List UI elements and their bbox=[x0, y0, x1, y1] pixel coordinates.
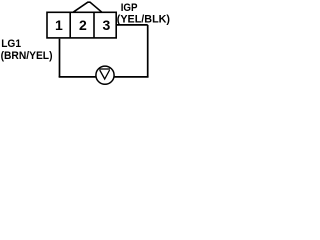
connector pin divider 2/3 bbox=[93, 12, 95, 38]
svg-text:1: 1 bbox=[55, 17, 63, 33]
wire IGP: right vertical bbox=[147, 25, 149, 77]
wire LG1: bottom rail left segment bbox=[59, 76, 96, 78]
svg-text:LG1: LG1 bbox=[1, 38, 21, 50]
svg-text:2: 2 bbox=[79, 17, 87, 33]
wire IGP: bottom rail right segment bbox=[115, 76, 149, 78]
connector pin divider 1/2 bbox=[69, 12, 71, 38]
pulse generator symbol (V with bar) bbox=[99, 69, 110, 79]
svg-text:(BRN/YEL): (BRN/YEL) bbox=[1, 50, 53, 62]
pulse generator G1 (circle) bbox=[96, 66, 114, 84]
wire LG1: pin1 down bbox=[59, 39, 61, 77]
connector keying tab (triangle) bbox=[73, 2, 102, 12]
wire IGP: pin3 side horizontal bbox=[116, 24, 148, 26]
svg-text:IGP: IGP bbox=[121, 2, 138, 14]
svg-text:3: 3 bbox=[103, 17, 111, 33]
connector J1 body (3-pin) bbox=[47, 2, 116, 38]
svg-text:(YEL/BLK): (YEL/BLK) bbox=[117, 14, 170, 26]
